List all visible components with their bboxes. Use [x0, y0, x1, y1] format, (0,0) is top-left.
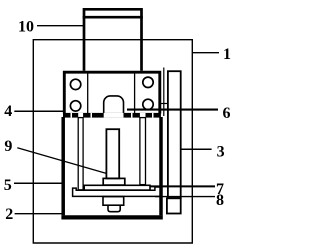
leader 7	[150, 185, 216, 187]
bolt end	[108, 205, 120, 212]
outer frame (base plate outline)	[33, 40, 192, 243]
bolt hole top-left	[70, 79, 80, 89]
svg-text:1: 1	[223, 46, 231, 63]
svg-text:9: 9	[4, 138, 12, 155]
leader 2	[15, 213, 62, 215]
svg-text:8: 8	[216, 192, 224, 209]
small tick near leader 6	[161, 103, 168, 105]
svg-text:5: 5	[4, 177, 12, 194]
leader 10	[37, 25, 84, 27]
leader 3	[181, 148, 212, 150]
leader 1	[193, 52, 220, 54]
svg-text:10: 10	[18, 19, 34, 36]
bolt hole bottom-left	[70, 101, 80, 111]
rod collar	[103, 178, 125, 185]
bolt hole top-right	[143, 77, 153, 87]
piston rod	[106, 129, 119, 178]
upper base plate A	[84, 185, 150, 190]
svg-text:4: 4	[4, 103, 12, 120]
leader 8	[155, 196, 215, 198]
right rail	[168, 71, 181, 198]
bolt hole bottom-right	[143, 99, 153, 109]
lower housing box	[63, 117, 161, 215]
svg-text:6: 6	[223, 105, 231, 122]
right guide rod	[140, 118, 146, 185]
leader 4	[14, 110, 64, 112]
mounting plate outline	[64, 72, 160, 113]
thin vertical beside plate	[163, 68, 165, 117]
cylinder cap line	[83, 16, 143, 19]
arch notch	[104, 96, 124, 114]
svg-text:3: 3	[217, 144, 225, 161]
plate inner line right	[134, 72, 136, 113]
leader 6	[127, 109, 218, 111]
nut block	[103, 197, 124, 206]
left guide rod	[78, 118, 83, 190]
cylinder body (top column)	[84, 9, 142, 71]
plate bottom band / box top	[63, 113, 161, 118]
rail foot square	[167, 198, 181, 213]
plate inner line left	[87, 72, 89, 113]
leader 9 (diagonal)	[17, 148, 106, 173]
lower base plate B with right lip	[73, 187, 161, 196]
svg-text:2: 2	[5, 206, 13, 223]
leader 5	[14, 182, 62, 184]
